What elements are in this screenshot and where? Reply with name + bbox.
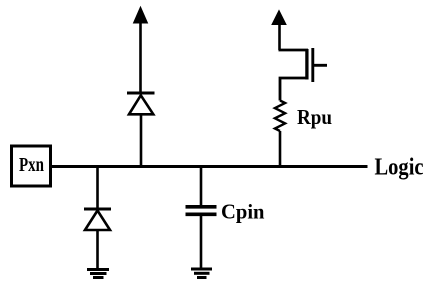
wire: bus down to lower clamp diode (96, 167, 99, 211)
ground (below lower diode) (87, 270, 109, 278)
gate lead (313, 64, 327, 67)
svg-text:Pxn: Pxn (19, 154, 44, 176)
PMOS transistor (pull-up) (279, 48, 328, 82)
channel bar (305, 49, 308, 80)
wire: bus up to upper clamp diode (140, 114, 143, 167)
wire: PMOS source up to VCC arrow (278, 23, 281, 50)
wire: lower diode to ground (96, 230, 99, 269)
wire: capacitor to ground (200, 214, 203, 268)
svg-text:Rpu: Rpu (297, 105, 332, 129)
VCC arrow (above upper diode) (134, 7, 148, 23)
diode D1 clamp to VCC (cathode up) (127, 93, 155, 114)
wire: upper diode to VCC arrow (139, 22, 142, 93)
resistor Rpu (zigzag) (275, 101, 285, 132)
wire: horizontal bus from Pxn to Logic (52, 165, 368, 168)
wire: bus up to resistor Rpu (279, 131, 282, 167)
gate bar (311, 48, 314, 82)
Pxn box (12, 146, 51, 186)
source lead (top) (279, 49, 309, 52)
wire: resistor to PMOS drain (280, 78, 308, 101)
svg-text:Logic: Logic (375, 154, 424, 181)
capacitor Cpin plates (186, 207, 217, 215)
svg-text:Cpin: Cpin (221, 200, 265, 224)
ground (below capacitor) (191, 269, 212, 278)
wire: bus down to capacitor (200, 167, 203, 207)
diode D2 clamp to ground (cathode up) (84, 209, 111, 230)
VCC arrow (above PMOS) (272, 11, 286, 25)
